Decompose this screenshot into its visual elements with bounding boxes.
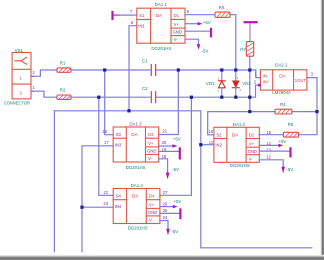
border right edge [320,0,324,260]
wire rail B to S4 (x98.8) [99,97,113,195]
svg-text:R4: R4 [280,102,286,107]
svg-text:+5V: +5V [173,137,181,142]
svg-text:V+: V+ [148,141,154,146]
wire D1 to R6 [185,14,215,16]
svg-text:V-: V- [149,218,154,223]
svg-text:DA2.1: DA2.1 [275,63,288,68]
resistor R5 [283,132,298,137]
svg-text:24: 24 [163,215,168,220]
svg-text:CONNECTOR: CONNECTOR [4,100,31,105]
svg-text:DA1.1: DA1.1 [155,2,168,7]
svg-text:GND: GND [248,149,257,154]
diode VD1 [218,70,225,97]
wire rail node B (lower rail y97.2) [71,96,250,98]
wire op-amp input pin1 jog [250,70,261,78]
pin2 marker [258,84,261,87]
pin stubs VS1 [31,76,34,91]
svg-text:R5: R5 [288,122,294,127]
svg-text:DG201HS: DG201HS [126,165,146,170]
svg-text:DA1.3: DA1.3 [129,122,142,127]
open terminal T-bar [245,22,257,41]
wire IN3 drop to IN4 [82,146,113,252]
svg-text:V-: V- [174,37,179,42]
op-amp DA1.3 switch [113,127,159,162]
svg-text:DA: DA [279,73,286,78]
svg-text:15: 15 [266,130,271,135]
wire left drop x54.4 [53,111,55,252]
svg-text:R2: R2 [60,88,66,93]
svg-text:IN3: IN3 [115,142,122,147]
svg-text:-5V: -5V [172,167,179,172]
svg-text:IN1: IN1 [138,23,145,28]
svg-text:D4: D4 [149,193,155,198]
power -5V of DA1.3 [159,159,170,179]
power +5V of DA1.4 [160,205,178,209]
resistor R1 [57,68,71,72]
op-amp DA1.4 switch [113,189,160,224]
svg-text:13: 13 [266,148,271,153]
svg-text:S4: S4 [116,193,122,198]
connector VS1 [12,53,31,99]
svg-text:DA1.4: DA1.4 [131,183,144,188]
op-amp DA2.1 [260,70,307,90]
wire D3 to rail A (x178.3) [159,70,179,135]
wire R7 to rail A [249,56,251,70]
svg-text:+5V: +5V [173,199,181,204]
wire rails to feedback (x249.8) [249,70,251,112]
svg-text:IN2: IN2 [215,143,222,148]
svg-text:IN+: IN+ [263,80,270,85]
svg-text:VD2: VD2 [242,81,251,86]
wire feedback bus y111.6 [208,112,317,135]
wire terminal to S1 pin7 [120,14,137,16]
power +5V of DA1.2 [259,144,283,148]
svg-text:GND: GND [148,210,157,215]
svg-text:V-: V- [249,157,254,162]
svg-text:DG201HS: DG201HS [230,163,250,168]
svg-text:V+: V+ [174,22,180,27]
svg-text:D3: D3 [148,132,154,137]
svg-text:LM2904A: LM2904A [272,90,291,95]
svg-text:R6: R6 [219,5,225,10]
wire IN1 pin6 drop [129,26,137,111]
wire op-amp input pin2 jog [250,85,261,97]
svg-text:-5V: -5V [202,48,209,53]
diode VD2 [232,70,239,97]
svg-text:DA: DA [232,132,239,137]
svg-text:V+: V+ [149,203,155,208]
ground bar of DA1.2 [259,148,290,156]
power -5V of DA1.1 [185,39,200,49]
svg-text:IN4: IN4 [115,204,122,209]
svg-text:12: 12 [266,155,271,160]
svg-text:+5V: +5V [278,139,286,144]
power +5V of DA1.1 [185,22,202,26]
svg-text:GND: GND [147,149,156,154]
svg-text:1OUT: 1OUT [295,78,307,83]
svg-text:DA: DA [132,193,139,198]
svg-text:V-: V- [148,156,153,161]
svg-text:DG201HS: DG201HS [128,225,148,230]
wire VS1 pin2 to R1 [31,70,57,76]
svg-text:DA: DA [156,13,163,18]
svg-text:+5V: +5V [203,20,211,25]
svg-text:D2: D2 [249,132,255,137]
svg-text:DA1.2: DA1.2 [233,122,246,127]
svg-text:-5V: -5V [286,167,293,172]
svg-text:27: 27 [163,190,168,195]
wire VS1 pin1 to R2 [31,91,57,97]
svg-text:21: 21 [162,129,167,134]
svg-text:C2: C2 [142,86,148,91]
capacitor C2 [151,92,155,103]
svg-text:23: 23 [103,201,108,206]
svg-text:20: 20 [162,140,167,145]
svg-text:IN-: IN- [263,73,269,78]
svg-text:VD1: VD1 [206,81,215,86]
border bottom edge [0,255,324,260]
resistor R7 [246,42,253,57]
svg-text:S2: S2 [216,132,222,137]
svg-text:C1: C1 [142,59,148,64]
svg-text:S3: S3 [116,132,122,137]
wire summing bus y110.8 [54,111,312,248]
svg-text:22: 22 [103,190,108,195]
wire IN4 tee [82,206,113,208]
resistor R4 [275,109,292,114]
svg-text:17: 17 [104,140,109,145]
power -5V of DA1.4 [160,221,170,236]
svg-text:11: 11 [209,140,214,145]
svg-text:25: 25 [163,208,168,213]
resistor R6 [215,12,230,17]
ground bar of DA1.4 [160,209,181,218]
op-amp DA1.2 switch [214,127,259,162]
svg-text:26: 26 [163,201,168,206]
svg-text:R7: R7 [240,47,246,52]
svg-text:VS1: VS1 [15,48,24,53]
ground bar of DA1.3 [159,148,180,158]
wire op-amp output to R5 [299,78,317,135]
power +5V of DA1.3 [159,144,178,148]
svg-text:S1: S1 [139,13,145,18]
svg-text:GND: GND [173,30,182,35]
svg-text:DG201HS: DG201HS [151,46,171,51]
svg-text:-5V: -5V [171,229,178,234]
svg-text:DA: DA [131,132,138,137]
svg-text:R1: R1 [60,61,66,66]
diode pin marks [217,76,241,93]
wire IN2 pin11 tee [201,144,214,146]
op-amp DA1.1 switch [137,8,185,43]
wire D4 to rail B (x191.4) [160,97,192,195]
resistor R2 [57,95,71,99]
wire rail node A (top rail y70) [71,69,250,71]
wire D2 pin15 to R5 [259,134,283,136]
wire R6 to rail A (x235) [230,15,236,70]
capacitor C1 [151,65,155,76]
svg-text:10: 10 [209,129,214,134]
svg-text:D1: D1 [174,13,180,18]
ground bar of DA1.1 [185,29,211,36]
power -5V of DA1.2 [259,160,285,174]
wire rail A to S3 (x104.7) [105,70,114,135]
port terminal S1 input [111,11,119,20]
svg-text:16: 16 [102,129,107,134]
svg-text:V+: V+ [249,142,255,147]
